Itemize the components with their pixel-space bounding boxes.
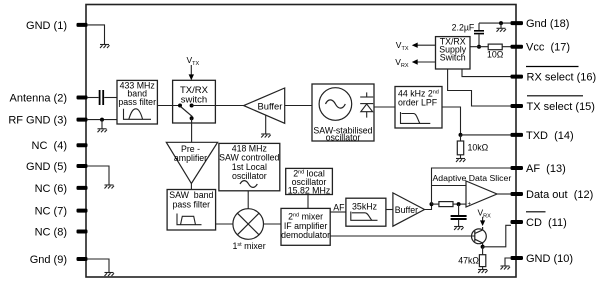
wire pin5 to ground [87, 166, 109, 185]
oscillator circle symbol [319, 88, 352, 121]
node TXD junction [459, 133, 463, 137]
buffer B1 (RF buffer, pointing left) [244, 88, 285, 123]
resistor R slicer [432, 202, 467, 207]
switch lever [181, 107, 193, 117]
svg-text:Buffer: Buffer [258, 100, 283, 111]
wire buffer ground stem [265, 115, 267, 134]
op-amp U1 comparator [466, 181, 497, 208]
svg-text:35kHz: 35kHz [352, 201, 377, 211]
44 kHz 2nd order LPF box [395, 87, 442, 129]
node Gnd18 ground junction [499, 21, 503, 25]
ground (slicer capacitor) [454, 227, 464, 231]
svg-text:oscillator: oscillator [232, 171, 267, 181]
ground (pin 1) [100, 45, 110, 49]
wire Vcc line [470, 46, 511, 48]
ground (pin 9) [105, 273, 115, 277]
svg-text:AF: AF [333, 202, 345, 212]
wire emitter node to CD pin [483, 225, 511, 247]
svg-text:NC (8): NC (8) [35, 227, 67, 239]
capacitor C 2.2uF [452, 22, 484, 46]
wire pin9 to ground [87, 259, 109, 273]
transistor Q1 [472, 227, 487, 247]
wire junction down [101, 120, 103, 129]
svg-text:NC (6): NC (6) [35, 183, 67, 195]
wire op-amp output to Data out pin [497, 193, 511, 195]
pre-amplifier triangle [166, 142, 217, 183]
35kHz LPF box [346, 198, 386, 226]
pin 18 stub [511, 21, 524, 25]
wire demodulator to transistor base [330, 235, 475, 237]
pin 6 stub [77, 186, 88, 190]
ground (RF GND) [98, 129, 108, 133]
SAW-stabilised oscillator box [312, 84, 374, 143]
svg-text:2.2µF: 2.2µF [452, 22, 475, 32]
node RC junction [457, 202, 461, 206]
ground (pin 10) [501, 266, 511, 270]
TX/RX switch U-switch box [173, 80, 216, 123]
node Vcc capacitor junction [477, 45, 481, 49]
wire pin1 to ground [87, 25, 105, 45]
pin 17 stub [511, 45, 524, 49]
wire TX select to supply switch [448, 69, 511, 106]
wire junction up to AF pin line [432, 168, 512, 204]
wire RF GND to filter [87, 119, 117, 121]
svg-text:Switch: Switch [440, 52, 466, 62]
sine wave inside oscillator [326, 100, 346, 108]
wire TXD node to pin 14 [461, 134, 512, 136]
svg-text:CD (11): CD (11) [526, 217, 567, 229]
pin 10 stub [511, 256, 524, 260]
capacitor C slicer [451, 204, 467, 226]
ground (pin 5) [105, 185, 115, 189]
svg-text:switch: switch [181, 95, 207, 106]
418 MHz SAW controlled 1st local oscillator box [219, 143, 280, 190]
svg-text:RX select (16): RX select (16) [527, 72, 597, 84]
pin 16 stub [511, 75, 524, 79]
svg-text:Vcc (17): Vcc (17) [526, 42, 570, 54]
wire oscillator to 44kHz LPF [374, 106, 395, 108]
buffer B2 (AF buffer, pointing right) [393, 193, 425, 226]
svg-text:Buffer: Buffer [395, 205, 418, 215]
resistor R 10k [457, 135, 488, 159]
pin 1 stub [77, 23, 88, 27]
wire capacitor to 433 filter [104, 97, 117, 99]
ground (47k resistor) [478, 270, 488, 274]
svg-text:oscillator: oscillator [326, 133, 361, 143]
svg-text:GND (5): GND (5) [26, 161, 67, 173]
wire RX select to supply switch [462, 69, 511, 77]
Vrx arrow into transistor collector [478, 207, 492, 226]
wire SAW filter to 1st mixer [216, 223, 233, 225]
module outline box [86, 5, 516, 278]
433 MHz band pass filter box [117, 80, 157, 124]
pin 14 stub [511, 133, 524, 137]
wire pin10 to ground [505, 258, 511, 266]
ground (Gnd 18) [497, 28, 507, 32]
svg-text:RF GND (3): RF GND (3) [8, 115, 67, 127]
wire pre-amp to SAW band pass filter [190, 184, 192, 190]
svg-text:AF (13): AF (13) [526, 163, 566, 175]
wire 418 osc to 1st mixer [247, 191, 249, 209]
node emitter junction [481, 245, 485, 249]
wire ground stub [500, 23, 502, 28]
2nd local oscillator 15.82 MHz box [286, 168, 333, 195]
pin 3 stub [77, 118, 88, 122]
svg-text:pass filter: pass filter [118, 97, 156, 107]
svg-text:Adaptive Data Slicer: Adaptive Data Slicer [433, 173, 512, 183]
pin 4 stub [77, 143, 88, 147]
wire switch right contact out [192, 105, 244, 107]
svg-text:47kΩ: 47kΩ [458, 256, 479, 266]
pin 13 stub [511, 166, 524, 170]
TX/RX supply switch box [436, 36, 471, 69]
resistor R 47k [458, 247, 486, 270]
pin 12 stub [511, 192, 524, 196]
overline TX select [527, 95, 583, 97]
svg-text:demodulator: demodulator [281, 230, 330, 240]
wire buffer B2 output to slicer node [425, 204, 432, 209]
varactor diode symbol [360, 92, 373, 117]
pin 9 stub [77, 257, 88, 261]
capacitor C-ant [100, 90, 104, 105]
switch contact right [190, 104, 194, 108]
ground (buffer B1) [261, 134, 271, 138]
wire demodulator AF out to 35kHz filter [330, 211, 346, 213]
wire antenna to coupling capacitor [87, 97, 99, 99]
SAW band pass filter box [167, 190, 216, 231]
2nd mixer IF amplifier demodulator box [281, 208, 330, 245]
svg-text:+: + [468, 202, 472, 208]
svg-text:GND (10): GND (10) [526, 253, 573, 265]
wire 2nd local osc to 2nd mixer [307, 195, 309, 209]
pin 15 stub [511, 104, 524, 108]
svg-text:Antenna (2): Antenna (2) [10, 93, 67, 105]
wire LPF to TXD node [442, 107, 461, 135]
svg-text:TXD (14): TXD (14) [526, 130, 574, 142]
wire 433 filter to TX/RX switch [157, 105, 180, 107]
wire switch bottom to pre-amplifier [191, 118, 193, 142]
Vtx arrow into switch [187, 55, 200, 81]
svg-text:Gnd (18): Gnd (18) [526, 18, 569, 30]
svg-text:pass filter: pass filter [172, 199, 210, 209]
Vrx arrow out of supply switch [395, 57, 435, 69]
svg-text:10Ω: 10Ω [487, 50, 504, 60]
pin 8 stub [77, 230, 88, 234]
pin 11 stub [511, 220, 524, 224]
svg-text:Gnd (9): Gnd (9) [30, 254, 67, 266]
wire 1st mixer to 2nd mixer [264, 223, 282, 225]
overline CD [526, 211, 546, 213]
pin 2 stub [77, 96, 88, 100]
svg-text:Data out (12): Data out (12) [526, 189, 593, 201]
svg-text:TX select (15): TX select (15) [527, 101, 595, 113]
wire 35kHz to buffer B2 [386, 209, 393, 211]
svg-text:NC (4): NC (4) [32, 140, 67, 152]
Vtx arrow out of supply switch [396, 40, 436, 52]
svg-text:amplifier: amplifier [174, 153, 207, 163]
wire op-amp top input [432, 185, 467, 187]
pin 5 stub [77, 164, 88, 168]
overline RX select [526, 66, 579, 68]
ground (10k resistor) [456, 159, 466, 163]
svg-text:15.82 MHz: 15.82 MHz [288, 185, 331, 195]
svg-text:GND (1): GND (1) [26, 20, 67, 32]
svg-text:order LPF: order LPF [398, 97, 438, 107]
wire Gnd 18 line [479, 22, 511, 24]
resistor R 10 ohm [487, 44, 504, 59]
node RF GND junction [100, 118, 104, 122]
switch contact bottom [190, 116, 194, 120]
switch contact left [178, 104, 182, 108]
svg-text:10kΩ: 10kΩ [468, 143, 489, 153]
1st mixer circle [233, 209, 266, 251]
wire buffer to SAW oscillator [285, 105, 312, 107]
svg-text:NC (7): NC (7) [35, 206, 67, 218]
node slicer input junction [430, 202, 434, 206]
pin 7 stub [77, 209, 88, 213]
